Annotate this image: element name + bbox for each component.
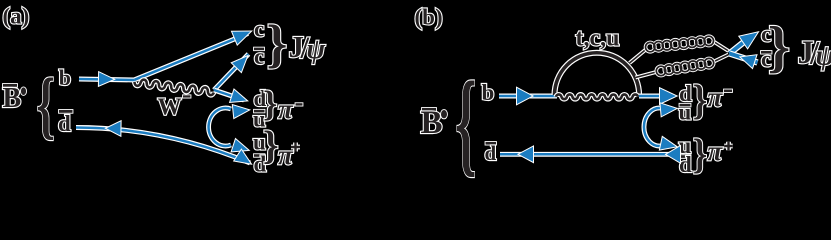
ubar overbar (b) xyxy=(680,104,691,107)
pi minus superscript (b) xyxy=(724,90,732,93)
panel label (a) xyxy=(3,4,30,29)
c quark line (a) xyxy=(135,34,249,80)
svg-text:{: { xyxy=(37,64,55,147)
quark d label (b) xyxy=(679,81,692,106)
quark c label (b) xyxy=(761,22,771,47)
svg-text:d: d xyxy=(485,141,497,165)
brace c-cbar (a) xyxy=(267,15,288,73)
quark c label (a) xyxy=(254,16,264,41)
svg-text:c: c xyxy=(254,16,264,41)
antiquark cbar label (a) xyxy=(254,44,264,69)
pi minus label (a) xyxy=(278,94,294,124)
b quark line (a) xyxy=(79,79,135,80)
arrow at d line end (a) xyxy=(230,90,246,102)
brace pi-plus (a) xyxy=(263,123,279,168)
svg-text:(a): (a) xyxy=(3,4,30,29)
cbar overbar (b) xyxy=(761,51,772,54)
t,c,u label (b) xyxy=(576,25,620,51)
dbar overbar left (b) xyxy=(486,142,497,145)
gluon 1 coil (b) xyxy=(646,36,714,52)
arrow to ubar on loop (a) xyxy=(233,105,249,118)
back arrow on cbar (b) xyxy=(741,55,756,67)
arrow at c line end (a) xyxy=(232,32,250,45)
quark u label (b) xyxy=(679,133,692,158)
quark d label (a) xyxy=(254,86,267,111)
antiquark cbar label (b) xyxy=(761,47,771,72)
J letter (a) xyxy=(289,29,305,64)
W boson wavy line (a) xyxy=(134,79,214,96)
svg-text:B: B xyxy=(421,105,443,141)
c quark line (b) xyxy=(730,40,748,54)
left brace (b) xyxy=(455,57,476,187)
gluon2 connector from arc (b) xyxy=(636,72,659,78)
pi plus label (a) xyxy=(278,140,294,170)
slash (a) xyxy=(300,30,310,65)
arrow at d line end (b) xyxy=(660,89,676,104)
svg-text:}: } xyxy=(693,131,707,178)
pi minus superscript (a) xyxy=(296,103,303,105)
slash (b) xyxy=(809,36,820,72)
antiquark dbar label right (b) xyxy=(679,152,692,177)
svg-text:W: W xyxy=(158,95,182,121)
ubar overbar (a) xyxy=(254,110,265,113)
d quark line (b) xyxy=(639,94,661,99)
panel label (b) xyxy=(415,5,443,30)
svg-text:t,c,u: t,c,u xyxy=(576,25,620,51)
u-ubar pair creation loop (a) xyxy=(209,108,231,146)
svg-text:(b): (b) xyxy=(415,5,443,30)
u-ubar pair creation loop (b) xyxy=(644,108,662,146)
antiquark dbar label right (a) xyxy=(254,152,267,177)
gluon 2 coil (b) xyxy=(656,58,713,75)
arrow to u on loop (a) xyxy=(232,139,248,151)
svg-text:u: u xyxy=(679,99,692,124)
svg-text:ψ: ψ xyxy=(816,40,831,72)
svg-text:ψ: ψ xyxy=(307,34,326,65)
left arrow on spectator near Bbar (b) xyxy=(519,147,533,162)
svg-text:c: c xyxy=(254,44,264,69)
svg-text:b: b xyxy=(482,80,495,105)
brace pi-minus (a) xyxy=(263,83,277,123)
svg-text:{: { xyxy=(455,57,476,187)
antiquark ubar label (a) xyxy=(253,107,266,132)
pi plus label (b) xyxy=(708,136,724,166)
svg-text:π: π xyxy=(278,140,294,170)
W boson wavy line (b) xyxy=(556,94,638,99)
gluon2 connector to vertex (b) xyxy=(712,55,729,63)
svg-text:}: } xyxy=(263,83,277,123)
Bbar0 superscript 0 (b) xyxy=(441,110,447,118)
Bbar0 meson B (b) xyxy=(421,105,443,141)
pi plus superscript (a) xyxy=(291,143,300,152)
left arrow on spectator (a) xyxy=(107,122,121,136)
cbar quark line (a) xyxy=(214,54,249,90)
svg-text:π: π xyxy=(278,94,294,124)
psi letter (a) xyxy=(307,34,326,65)
Bbar0 superscript 0 (a) xyxy=(21,87,26,95)
end arrow on spectator (a) xyxy=(235,150,251,164)
d quark line (a) xyxy=(214,90,244,100)
J letter (b) xyxy=(798,35,815,71)
dbar overbar right (a) xyxy=(254,154,265,157)
arrow at c end (b) xyxy=(740,33,758,49)
gluon1 connector to vertex (b) xyxy=(712,41,729,52)
antiquark ubar label (b) xyxy=(679,99,692,124)
quark u label (a) xyxy=(253,130,266,155)
gluon1 connector from arc (b) xyxy=(630,49,648,64)
arrow to u on loop (b) xyxy=(660,137,676,149)
quark b label (b) xyxy=(482,80,495,105)
arrow on b line (b) xyxy=(517,88,532,104)
Bbar0 meson B (a) xyxy=(3,83,22,114)
svg-text:b: b xyxy=(59,65,71,90)
svg-text:}: } xyxy=(263,123,279,168)
svg-text:π: π xyxy=(708,82,724,112)
antiquark dbar label left (a) xyxy=(58,111,71,136)
svg-text:}: } xyxy=(693,77,707,124)
quark b label (a) xyxy=(59,65,71,90)
spectator dbar line (b) xyxy=(500,152,680,157)
brace c-cbar (b) xyxy=(768,16,790,79)
brace pi-plus (b) xyxy=(693,131,707,178)
dbar overbar right (b) xyxy=(680,155,691,158)
W superscript minus (a) xyxy=(183,95,191,97)
brace pi-minus (b) xyxy=(693,77,707,124)
antiquark dbar label left (b) xyxy=(485,141,497,165)
left brace (a) xyxy=(37,64,55,147)
b quark line (b) xyxy=(499,94,557,99)
cbar overbar (a) xyxy=(254,48,264,51)
arrow on cbar line (a) xyxy=(232,57,247,72)
dbar overbar left (a) xyxy=(59,110,73,113)
pi plus superscript (b) xyxy=(724,142,733,151)
pi minus label (b) xyxy=(708,82,724,112)
arrow on b line (a) xyxy=(99,72,114,85)
left arrow on spectator near dbar (b) xyxy=(667,146,681,162)
spectator dbar line (a) xyxy=(76,128,250,164)
svg-text:d: d xyxy=(58,111,71,136)
svg-text:π: π xyxy=(708,136,724,166)
t,c,u loop arc (b) xyxy=(555,53,640,95)
psi letter (b) xyxy=(816,40,831,72)
Bbar0 overbar (b) xyxy=(422,108,436,111)
svg-text:}: } xyxy=(768,16,790,79)
Bbar0 overbar (a) xyxy=(3,84,17,87)
svg-text:B: B xyxy=(3,83,22,114)
arrow to ubar on loop (b) xyxy=(661,104,677,117)
svg-text:}: } xyxy=(267,15,288,73)
W boson label (a) xyxy=(158,95,182,121)
cbar quark line (b) xyxy=(730,54,758,63)
